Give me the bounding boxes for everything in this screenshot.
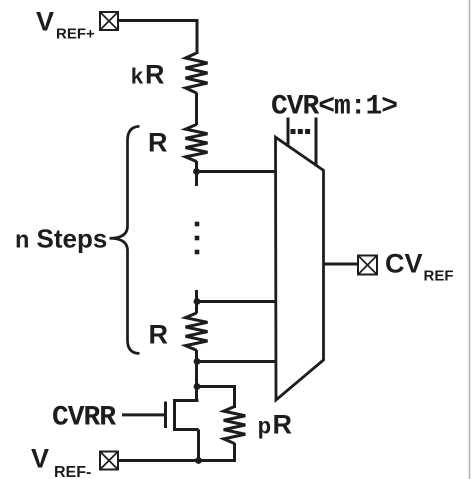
svg-text:CVRR: CVRR bbox=[52, 403, 116, 434]
node E (junction dot on bottom rail) bbox=[195, 457, 202, 464]
svg-text:R: R bbox=[148, 128, 168, 158]
wire CVRR to gate bbox=[122, 413, 164, 416]
terminal T1 (V_REF+ pad, crossed box) bbox=[100, 12, 118, 30]
svg-text:R: R bbox=[149, 320, 169, 350]
label V_REF+ bbox=[36, 7, 95, 43]
figure border line (right) bbox=[469, 0, 471, 479]
select wire S2 bbox=[315, 118, 318, 167]
svg-text:V: V bbox=[31, 444, 49, 474]
wire tap 1 to mux input bbox=[197, 170, 277, 173]
resistor R1 bbox=[186, 125, 208, 162]
mux U1 (trapezoid) bbox=[276, 137, 324, 400]
wire kR to R1 bbox=[195, 93, 198, 126]
wire R1 to node A with stub bbox=[195, 161, 198, 186]
resistor pR bbox=[224, 407, 246, 444]
svg-text:CV: CV bbox=[385, 249, 423, 279]
wire tap 3 to mux input bbox=[197, 360, 277, 363]
svg-text:REF: REF bbox=[424, 268, 454, 285]
wire pR bottom to bottom rail bbox=[119, 443, 235, 461]
svg-text:V: V bbox=[36, 7, 54, 37]
label V_REF- bbox=[31, 444, 91, 479]
terminal T2 (CV_REF pad, crossed box) bbox=[358, 256, 377, 275]
value label kR bbox=[131, 60, 165, 91]
resistor kR bbox=[186, 53, 208, 93]
wire ladder resume to node B bbox=[195, 290, 198, 314]
wire tap 2 to mux input bbox=[197, 300, 276, 303]
label n Steps bbox=[15, 223, 107, 255]
node C (junction dot, third tap) bbox=[194, 358, 201, 365]
select wire S1 bbox=[287, 118, 290, 148]
wire R2 down to transistor drain bbox=[195, 350, 198, 402]
value label pR bbox=[258, 410, 293, 441]
node D (junction dot, pR top tap) bbox=[194, 383, 201, 390]
wire node D to pR top bbox=[197, 387, 235, 409]
transistor M1 (MOS switch) bbox=[166, 399, 199, 461]
select bus ellipsis dots bbox=[291, 129, 311, 134]
svg-text:n: n bbox=[15, 228, 29, 255]
svg-text:R: R bbox=[145, 60, 165, 90]
vertical ellipsis dots on ladder bbox=[195, 222, 200, 255]
svg-text:p: p bbox=[258, 415, 272, 441]
wire mux output bbox=[324, 263, 359, 266]
svg-text:k: k bbox=[131, 66, 144, 91]
brace for n Steps bbox=[110, 126, 140, 353]
svg-text:Steps: Steps bbox=[37, 223, 108, 253]
svg-text:REF+: REF+ bbox=[56, 26, 95, 43]
resistor R2 bbox=[186, 313, 208, 350]
wire from T1 to top of kR bbox=[118, 21, 197, 55]
svg-text:REF-: REF- bbox=[54, 464, 91, 479]
node B (junction dot, second tap) bbox=[194, 298, 201, 305]
node A (junction dot, top tap) bbox=[193, 168, 200, 175]
svg-text:R: R bbox=[273, 410, 293, 440]
label CV_REF bbox=[385, 249, 454, 285]
svg-text:CVR<m:1>: CVR<m:1> bbox=[271, 92, 397, 123]
terminal T3 (V_REF- pad, crossed box) bbox=[100, 452, 118, 470]
